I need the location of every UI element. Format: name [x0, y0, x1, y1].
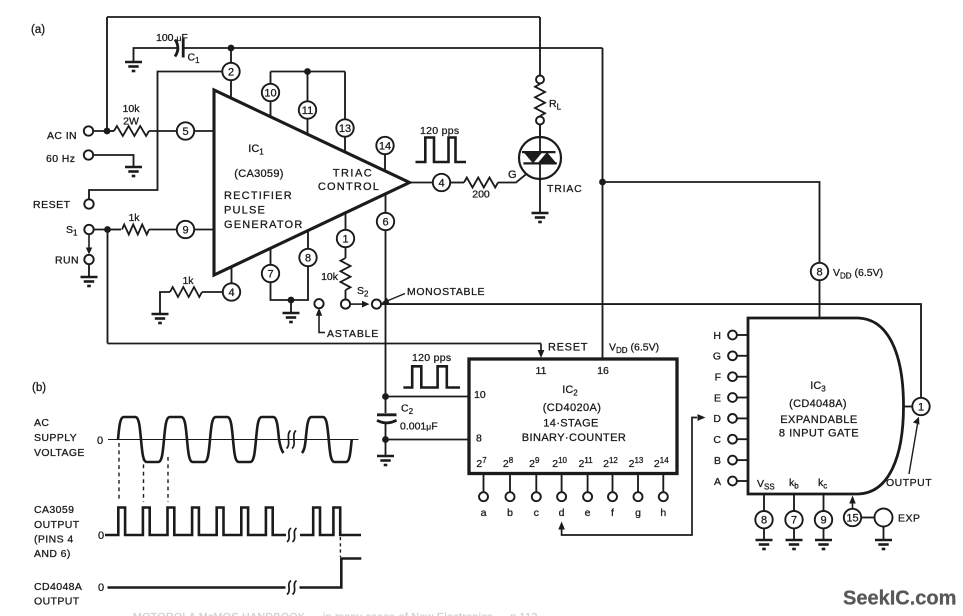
wire 60Hz to ground: [93, 155, 133, 167]
pin 4 left: [223, 283, 240, 300]
wire pin4-R5: [450, 182, 464, 184]
svg-text:2: 2: [228, 67, 234, 79]
svg-text:TRIAC: TRIAC: [333, 168, 374, 180]
wire AC-IN riser: [106, 17, 108, 131]
wire apex-pin4: [410, 182, 433, 184]
ground R3: [152, 314, 169, 323]
dashed guide 2: [143, 457, 145, 502]
wire feedback d-D: [558, 522, 565, 530]
terminal ASTABLE: [314, 299, 323, 308]
ground EXP: [875, 540, 892, 549]
pin 2: [222, 63, 239, 80]
svg-text:GENERATOR: GENERATOR: [224, 219, 303, 231]
svg-text:A: A: [714, 476, 721, 488]
svg-text:D: D: [713, 413, 721, 425]
svg-text:(CA3059): (CA3059): [234, 168, 283, 180]
node S1 junction: [104, 226, 111, 233]
wire kc stub: [823, 494, 825, 511]
wire pin11 up: [307, 72, 309, 102]
wire pin7 down: [271, 282, 292, 300]
pin 14: [376, 137, 393, 154]
wire VSS ground: [763, 528, 765, 540]
resistor 200 R5: [464, 178, 498, 188]
wire RESET run: [89, 72, 222, 200]
triac body: [519, 137, 561, 179]
resistor 10k 2W: [114, 126, 149, 136]
svg-text:16: 16: [597, 365, 609, 377]
svg-text:10k: 10k: [123, 103, 141, 115]
svg-text:a: a: [481, 507, 487, 519]
terminal RESET: [84, 199, 93, 208]
pin 9 kc: [815, 511, 832, 528]
svg-text:1k: 1k: [182, 275, 194, 287]
wire bottom bus: [108, 343, 542, 345]
wire pin6 down: [385, 230, 387, 413]
svg-text:8 INPUT GATE: 8 INPUT GATE: [779, 428, 859, 440]
svg-text:0: 0: [98, 530, 104, 542]
capacitor C1 plates: [175, 40, 178, 57]
wire pin15-EXP: [861, 517, 874, 519]
waveform CA3059 output: [105, 508, 286, 536]
waveform 120pps upper: [416, 138, 467, 163]
wire pin1 stub: [345, 213, 347, 230]
svg-text:f: f: [611, 507, 614, 519]
svg-text:MOTOROLA McMOS HANDBOOK — in m: MOTOROLA McMOS HANDBOOK — in many cases …: [133, 611, 538, 616]
pin 1: [337, 230, 354, 247]
wire pin10 up: [270, 72, 272, 85]
wire to pin10: [386, 396, 470, 398]
svg-text:120 pps: 120 pps: [420, 125, 459, 137]
svg-text:(CD4048A): (CD4048A): [789, 398, 847, 410]
pin 15: [844, 509, 861, 526]
wire pin11 stub: [307, 119, 309, 135]
svg-text:10k: 10k: [321, 271, 339, 283]
wire junction to ground: [290, 300, 292, 312]
svg-text:CONTROL: CONTROL: [318, 181, 380, 193]
wire AC-IN to junction: [93, 130, 111, 132]
pin 8: [299, 249, 316, 266]
wire junction-R2: [111, 229, 121, 231]
svg-text:8: 8: [305, 253, 311, 265]
svg-text:5: 5: [182, 126, 188, 138]
svg-text:g: g: [635, 507, 641, 519]
switch S2 pole: [341, 300, 350, 309]
wire S1 to junction: [94, 229, 111, 231]
node pin7-8 junction: [288, 297, 295, 304]
switch arrow S1-RUN: [88, 235, 90, 249]
svg-text:G: G: [508, 169, 517, 181]
svg-text:0: 0: [97, 435, 103, 447]
svg-text:(PINS 4: (PINS 4: [34, 534, 74, 546]
svg-text:120 pps: 120 pps: [412, 352, 451, 364]
svg-text:H: H: [713, 330, 721, 342]
ground kb: [786, 540, 803, 549]
wire top bus to RL: [539, 17, 541, 76]
pin 8 VDD: [811, 263, 828, 280]
wire pins bracket: [271, 71, 346, 73]
wire pin8 down: [291, 266, 308, 300]
wire pin15 arrow: [852, 503, 854, 509]
ground C1: [125, 62, 142, 71]
wire R3-pin4: [202, 291, 223, 293]
wire top bus: [107, 16, 540, 18]
pin 7: [262, 265, 279, 282]
switch S2 arrow: [351, 303, 364, 305]
svg-text:RESET: RESET: [33, 199, 71, 211]
pin 10: [262, 84, 279, 101]
svg-text:14: 14: [379, 141, 391, 153]
triac triangles: [539, 125, 541, 153]
svg-text:OUTPUT: OUTPUT: [886, 477, 932, 489]
wire pin13 up: [344, 72, 346, 120]
svg-text:SeekIC.com: SeekIC.com: [843, 588, 956, 610]
wire pin1 to R4: [345, 247, 347, 258]
node C2 top junction: [382, 393, 389, 400]
svg-text:11: 11: [302, 105, 313, 117]
wire VSS stub: [763, 494, 765, 511]
wire RL-triac: [539, 125, 541, 138]
terminal EXP: [875, 509, 893, 527]
svg-text:AND 6): AND 6): [34, 548, 71, 560]
svg-text:8: 8: [816, 267, 822, 279]
ground kc: [815, 540, 832, 549]
wire R4 to S2: [345, 290, 347, 299]
terminal 60 Hz: [84, 150, 93, 159]
pin 11: [299, 101, 316, 118]
wire IC3-pin1: [904, 406, 913, 408]
break CD4048A wave: [287, 581, 291, 595]
op-amp IC1 body: [214, 90, 410, 275]
wire R1-pin5: [149, 130, 177, 132]
svg-text:MONOSTABLE: MONOSTABLE: [407, 286, 485, 298]
svg-text:(a): (a): [31, 24, 45, 36]
switch S2 throw: [372, 300, 381, 309]
wire RUN to ground: [88, 264, 90, 277]
svg-text:EXPANDABLE: EXPANDABLE: [780, 414, 858, 426]
wire pin4-IC1 edge: [231, 267, 233, 284]
wire R5 to gate: [498, 174, 526, 182]
ac axis: [108, 439, 359, 441]
node AC-IN junction: [104, 128, 111, 135]
node VDD junction: [599, 179, 606, 186]
svg-text:AC IN: AC IN: [47, 130, 77, 142]
wire EXP ground: [883, 527, 885, 541]
node bracket junction: [304, 68, 311, 75]
svg-text:7: 7: [791, 515, 797, 527]
svg-text:b: b: [507, 507, 513, 519]
wire monostable bus: [386, 304, 922, 398]
pin 7 kb: [785, 511, 802, 528]
svg-text:8: 8: [761, 515, 767, 527]
ground VSS: [756, 540, 773, 549]
output arrow: [909, 424, 918, 474]
svg-text:0.001μF: 0.001μF: [400, 421, 438, 433]
terminal RL top: [536, 76, 544, 84]
svg-text:14·STAGE: 14·STAGE: [543, 418, 599, 430]
monostable arrow: [387, 294, 405, 302]
wire pin2 up: [230, 48, 232, 63]
resistor 1k R3: [170, 287, 202, 297]
ground pins7-8: [283, 313, 300, 322]
svg-text:9: 9: [182, 225, 188, 237]
ground triac: [532, 213, 549, 222]
svg-text:RESET: RESET: [548, 342, 588, 354]
svg-text:1: 1: [342, 234, 348, 246]
astable arrow: [316, 308, 322, 316]
wire junction-R1: [111, 130, 114, 132]
wire kb ground: [793, 528, 795, 540]
svg-text:RECTIFIER: RECTIFIER: [224, 190, 293, 202]
wire S2 to pin6 line: [381, 303, 385, 305]
wire triac to ground: [539, 179, 541, 214]
wire VDD riser: [602, 48, 604, 359]
node C2 bottom junction: [382, 436, 389, 443]
pin 9: [177, 221, 194, 238]
svg-text:h: h: [660, 507, 666, 519]
svg-text:G: G: [713, 351, 721, 363]
pin 8 VSS: [755, 511, 772, 528]
wire pin7 stub: [270, 248, 272, 265]
svg-text:6: 6: [382, 217, 388, 229]
dashed guide 3: [167, 457, 169, 502]
ground 60Hz: [125, 167, 142, 176]
resistor 10k R4: [341, 258, 351, 290]
svg-text:60 Hz: 60 Hz: [46, 153, 75, 165]
svg-text:OUTPUT: OUTPUT: [34, 596, 80, 608]
wire pin2 down: [230, 80, 232, 98]
wire pin13 stub: [344, 137, 346, 152]
svg-text:c: c: [534, 507, 539, 519]
svg-text:d: d: [559, 507, 565, 519]
capacitor C2: [377, 413, 397, 416]
svg-text:E: E: [714, 392, 721, 404]
dashed guide 1: [118, 443, 120, 502]
terminal S1: [84, 225, 93, 234]
dashed guide 4: [339, 537, 341, 557]
wire to pin8 IC2: [386, 439, 470, 441]
resistor 1k R2: [122, 225, 149, 235]
svg-text:4: 4: [438, 178, 444, 190]
pin 4 output: [433, 174, 450, 191]
wire pin6 stub: [385, 194, 387, 213]
svg-text:e: e: [585, 507, 591, 519]
wire bus to pin11 arrow: [540, 344, 542, 352]
terminal RL bottom: [536, 117, 544, 125]
svg-text:SUPPLY: SUPPLY: [34, 432, 77, 444]
wire R2-pin9: [149, 229, 177, 231]
binary counter IC2 box: [469, 359, 677, 474]
svg-text:15: 15: [846, 513, 858, 525]
svg-text:200: 200: [472, 189, 490, 201]
resistor RL: [535, 84, 545, 116]
wire pin8 stub: [307, 230, 309, 248]
svg-text:F: F: [715, 372, 721, 384]
wire C2 bottom: [385, 423, 387, 456]
svg-text:(CD4020A): (CD4020A): [543, 402, 602, 414]
pin 5: [177, 122, 194, 139]
svg-text:PULSE: PULSE: [224, 205, 266, 217]
svg-text:4: 4: [228, 287, 234, 299]
svg-text:1k: 1k: [128, 212, 140, 224]
svg-text:100 μF: 100 μF: [156, 32, 188, 44]
svg-text:7: 7: [267, 269, 273, 281]
svg-text:VOLTAGE: VOLTAGE: [34, 447, 85, 459]
waveform AC supply: [118, 417, 284, 462]
terminal AC IN: [84, 126, 93, 135]
wire pin10 stub: [270, 101, 272, 117]
wire kc ground: [823, 528, 825, 540]
waveform CD4048A output: [108, 586, 286, 589]
svg-text:TRIAC: TRIAC: [547, 183, 583, 195]
svg-text:0: 0: [98, 582, 104, 594]
svg-text:EXP: EXP: [898, 513, 921, 525]
node C1 junction: [228, 45, 235, 52]
svg-text:8: 8: [476, 433, 482, 445]
pins a-h stubs: [483, 474, 485, 493]
wire C1 left: [134, 48, 178, 62]
break CA3059 wave: [287, 528, 291, 542]
svg-text:2W: 2W: [123, 116, 139, 128]
svg-text:OUTPUT: OUTPUT: [34, 519, 80, 531]
waveform 120pps lower: [403, 366, 460, 387]
svg-text:RUN: RUN: [55, 255, 79, 267]
svg-text:10: 10: [264, 88, 276, 100]
ground C2: [377, 456, 394, 465]
wire VDD to IC3 branch: [603, 182, 820, 318]
wire pin5-IC1: [194, 130, 214, 132]
svg-text:1: 1: [918, 402, 924, 414]
svg-text:B: B: [714, 455, 721, 467]
svg-text:9: 9: [820, 515, 826, 527]
wire pin9-IC1: [194, 229, 214, 231]
svg-text:CD4048A: CD4048A: [34, 581, 82, 593]
gate IC3 body: [748, 318, 904, 494]
wire R3 to ground: [160, 292, 170, 314]
wire pin14 stub: [384, 154, 386, 171]
svg-text:13: 13: [339, 123, 351, 135]
svg-text:CA3059: CA3059: [34, 504, 74, 516]
pin 1 output: [912, 398, 929, 415]
wire S1 bus down: [107, 230, 109, 344]
ground RUN: [81, 277, 98, 286]
terminal RUN: [84, 255, 93, 264]
svg-text:11: 11: [536, 365, 547, 377]
svg-text:AC: AC: [34, 417, 49, 429]
svg-text:C: C: [713, 434, 721, 446]
wire kb stub: [793, 494, 795, 511]
pin 13: [336, 119, 353, 136]
pin 6: [377, 213, 394, 230]
svg-text:10: 10: [474, 389, 486, 401]
svg-text:ASTABLE: ASTABLE: [327, 328, 379, 340]
break AC wave: [287, 431, 291, 449]
svg-text:(b): (b): [32, 382, 46, 394]
svg-text:BINARY·COUNTER: BINARY·COUNTER: [522, 432, 626, 444]
wire C1 to VDD riser: [183, 47, 602, 49]
